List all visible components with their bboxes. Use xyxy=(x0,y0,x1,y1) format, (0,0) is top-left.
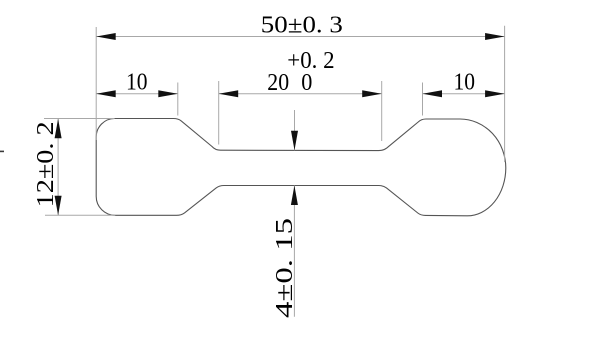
dimension text 20 with tolerance +0.2/0 xyxy=(267,47,334,96)
extension line taper start left (x=178) xyxy=(177,83,179,116)
extension line grip bottom (12 dim) xyxy=(45,214,115,216)
svg-text:+0. 2: +0. 2 xyxy=(287,47,334,74)
extension line taper end right (x=422) xyxy=(422,83,424,116)
extension line narrow left (x=219) xyxy=(218,81,220,145)
dimension line 12±0.2 (vertical) xyxy=(55,119,62,215)
svg-text:50±0. 3: 50±0. 3 xyxy=(261,11,343,38)
svg-text:20: 20 xyxy=(267,69,289,96)
leader line 4±0.15 upper xyxy=(291,110,298,150)
extension line grip top (12 dim) xyxy=(44,118,115,120)
cropped tick at left page edge xyxy=(0,150,4,152)
specimen outline (dog-bone tensile specimen) xyxy=(96,119,506,216)
dimension line 50±0.3 xyxy=(96,33,504,40)
svg-text:10: 10 xyxy=(126,69,148,96)
extension line narrow right (x=382) xyxy=(381,81,383,141)
extension line right end (x=504) xyxy=(504,26,506,162)
svg-text:10: 10 xyxy=(453,69,475,96)
dimension line 10 right xyxy=(423,90,505,97)
leader line 4±0.15 lower xyxy=(291,186,298,317)
extension line left end (x=96) xyxy=(95,27,97,140)
svg-text:12±0. 2: 12±0. 2 xyxy=(32,121,59,207)
dimension line 20 xyxy=(219,90,382,97)
svg-text:4±0. 15: 4±0. 15 xyxy=(271,218,298,318)
dimension line 10 left xyxy=(96,90,178,97)
